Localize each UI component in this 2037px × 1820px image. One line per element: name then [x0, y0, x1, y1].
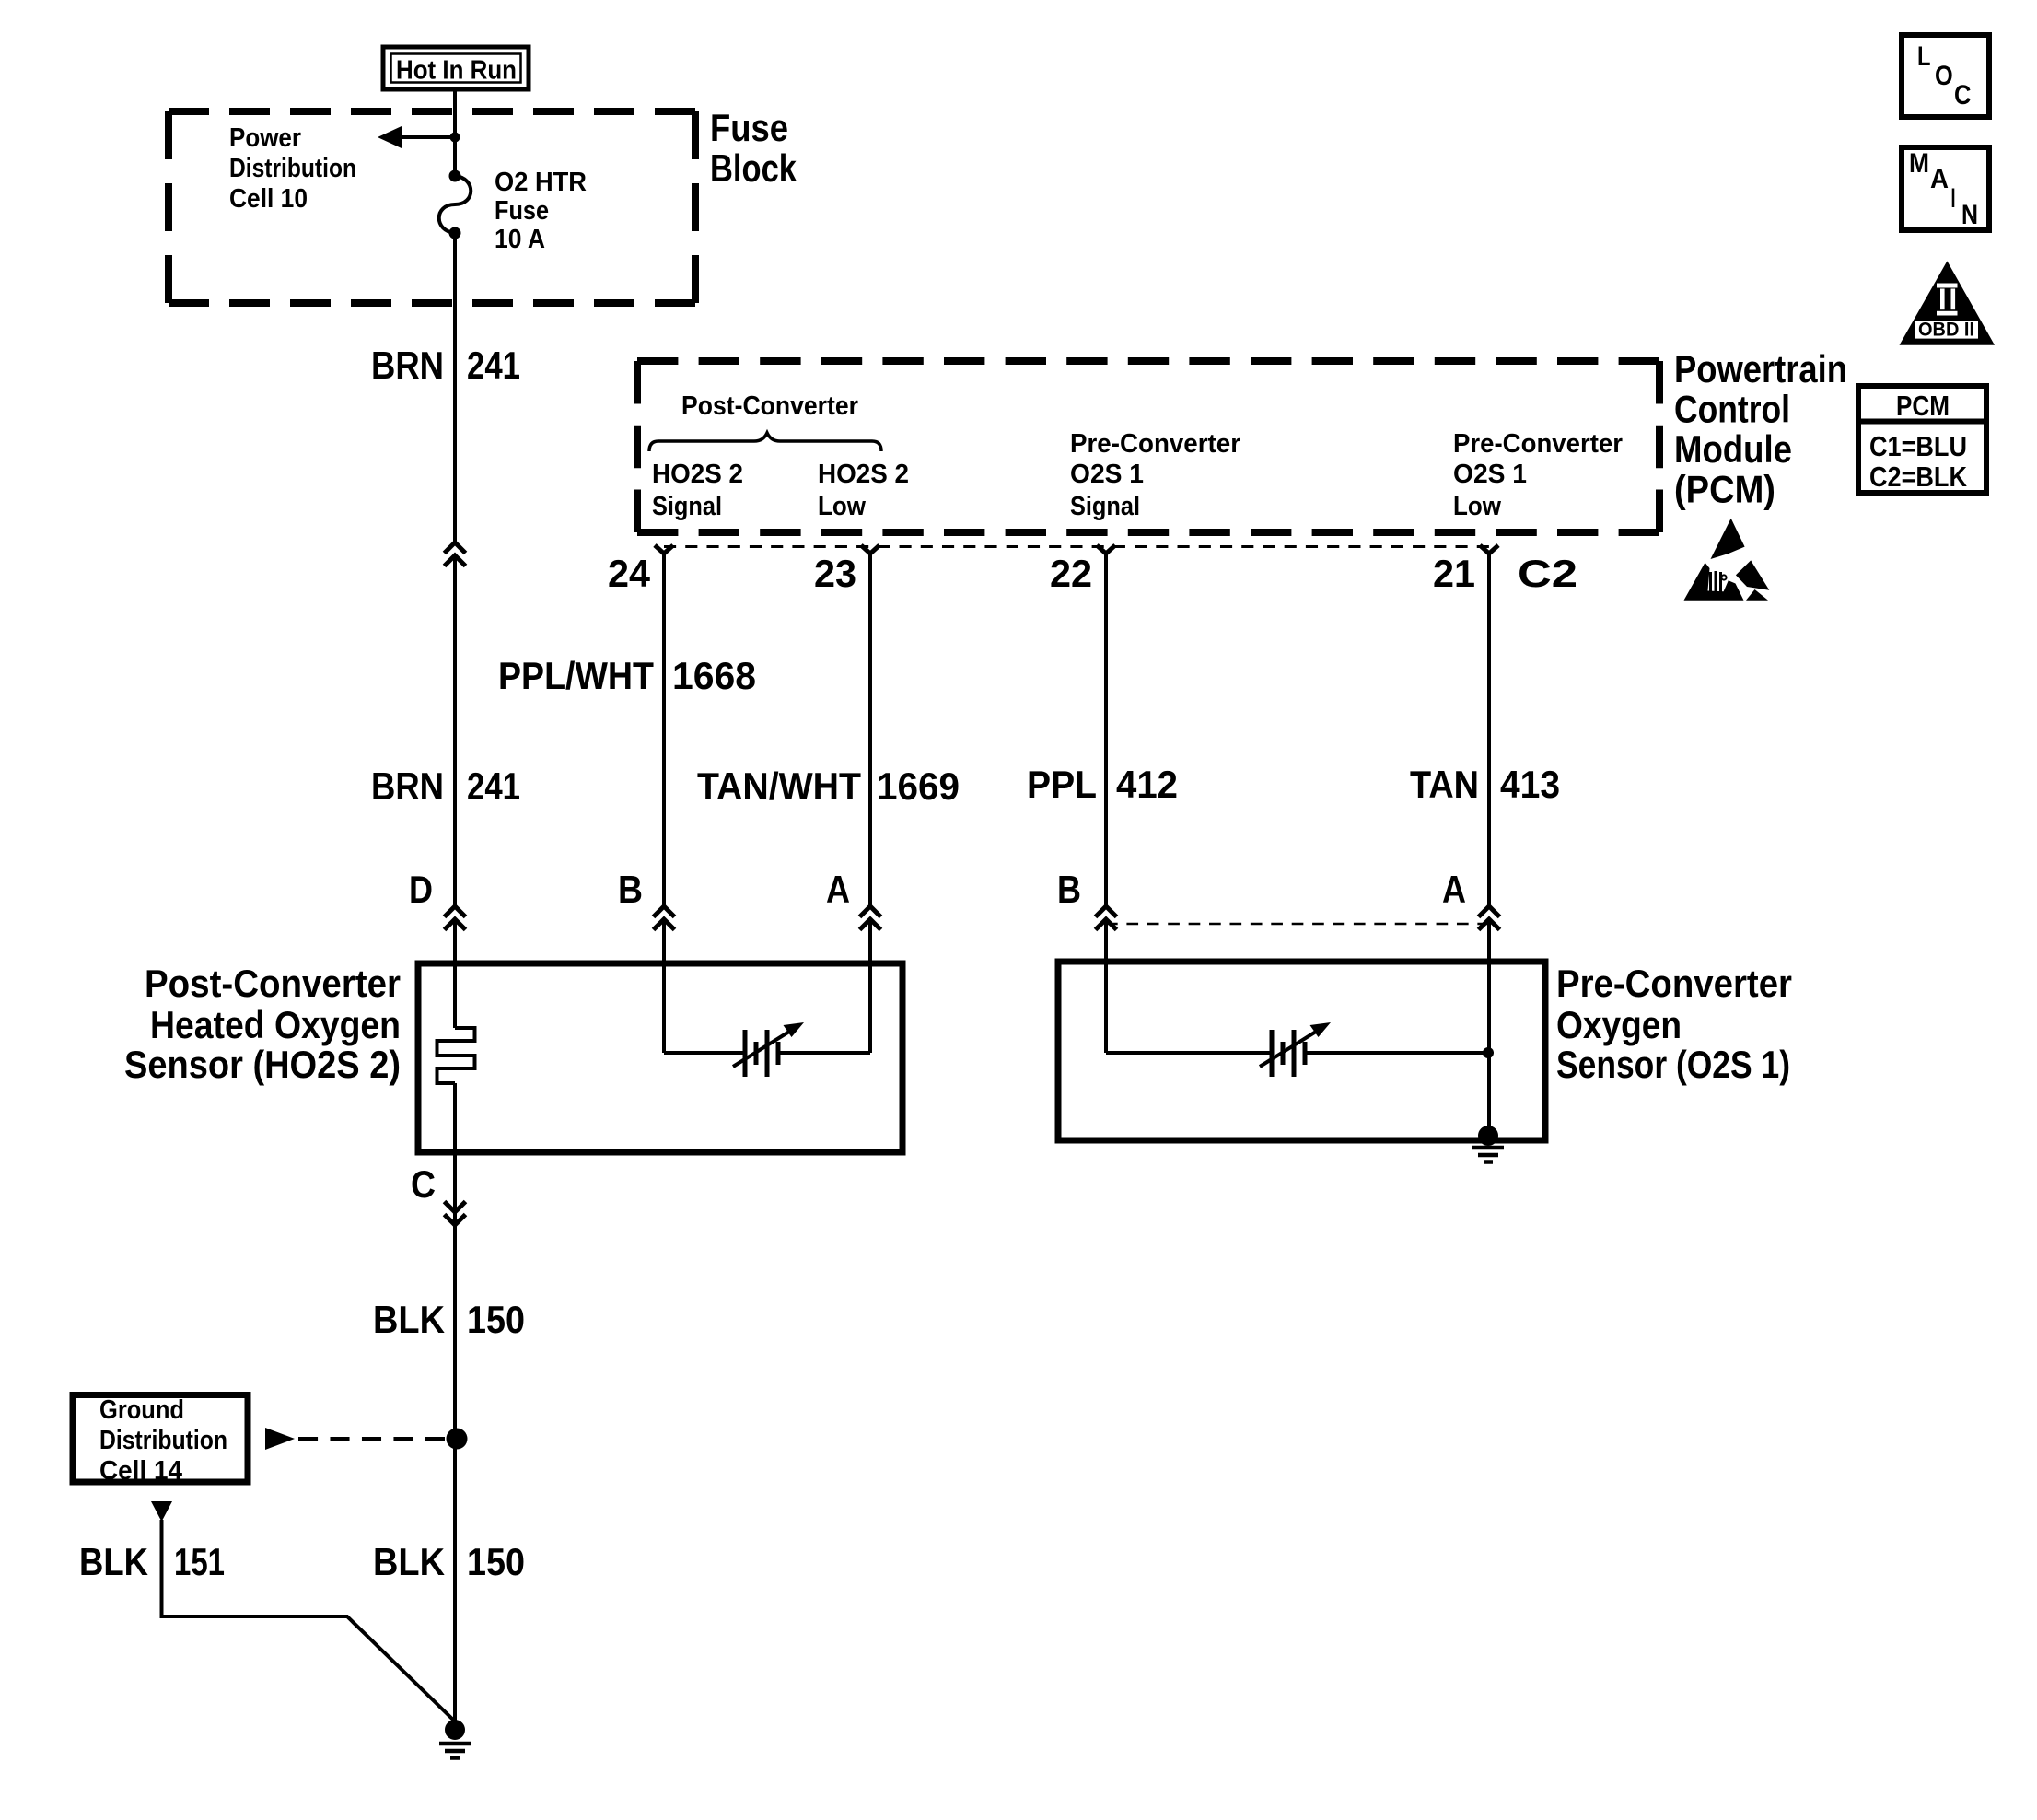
svg-text:Cell 14: Cell 14	[99, 1456, 182, 1486]
label BLK 150 upper	[373, 1298, 525, 1341]
svg-text:PPL: PPL	[1027, 763, 1097, 806]
svg-text:O2 HTR: O2 HTR	[495, 168, 587, 197]
pin socket 24	[655, 545, 673, 554]
svg-text:(PCM): (PCM)	[1674, 468, 1775, 511]
svg-text:22: 22	[1050, 552, 1092, 595]
svg-text:L: L	[1917, 41, 1931, 72]
svg-text:Control: Control	[1674, 388, 1790, 431]
svg-text:BRN: BRN	[371, 764, 444, 808]
svg-text:BLK: BLK	[373, 1540, 445, 1583]
svg-text:TAN: TAN	[1410, 763, 1479, 806]
svg-text:Low: Low	[818, 492, 866, 521]
pin letter C	[411, 1162, 436, 1206]
pin letter B (HO2S 2)	[618, 868, 643, 911]
svg-text:150: 150	[467, 1540, 525, 1583]
wire A2 inside box	[1487, 962, 1491, 1136]
svg-text:O: O	[1935, 61, 1953, 91]
MAIN reference box	[1902, 147, 1989, 230]
svg-text:1669: 1669	[877, 764, 960, 808]
label Post-Converter (brace title)	[681, 391, 858, 421]
connector chevrons wire C	[445, 1202, 466, 1226]
pin label HO2S 2 Signal	[652, 460, 743, 521]
pin label Pre-Converter O2S 1 Low	[1453, 429, 1623, 521]
connector chevrons wire B1	[654, 906, 675, 930]
label Fuse Block	[710, 106, 797, 190]
connector chevrons wire A1	[860, 906, 881, 930]
svg-text:BLK: BLK	[79, 1540, 148, 1583]
svg-text:24: 24	[608, 552, 651, 595]
svg-text:Post-Converter: Post-Converter	[681, 391, 858, 421]
svg-text:10 A: 10 A	[495, 225, 545, 254]
label BRN 241 lower	[371, 764, 520, 808]
svg-text:Distribution: Distribution	[229, 154, 356, 183]
brace over HO2S 2 pins	[649, 433, 881, 451]
pin letter A (HO2S 2)	[826, 868, 850, 911]
svg-text:C1=BLU: C1=BLU	[1869, 430, 1967, 462]
svg-text:241: 241	[467, 764, 520, 808]
label Ground Distribution Cell 14	[99, 1395, 227, 1486]
label BRN 241 upper	[371, 344, 520, 387]
arrow from Ground Distribution	[265, 1428, 445, 1450]
svg-text:1668: 1668	[672, 654, 756, 697]
label C2	[1518, 552, 1577, 595]
svg-text:A: A	[1930, 164, 1949, 194]
post-converter HO2S 2 box	[418, 963, 902, 1152]
label BLK 150 lower	[373, 1540, 525, 1583]
off-page connector triangle BLK 151	[151, 1501, 172, 1522]
powertrain control module dashed box	[637, 361, 1659, 532]
connector chevrons wire B2	[1096, 906, 1117, 930]
O2S 1 connector dashed face line	[1106, 923, 1489, 926]
PCM connector C2 dashed face line	[664, 545, 1489, 548]
PCM connector table	[1858, 386, 1986, 493]
svg-text:Pre-Converter: Pre-Converter	[1453, 429, 1623, 459]
wire TAN/WHT 1669	[868, 553, 872, 963]
connector chevrons wire A2	[1479, 906, 1500, 930]
svg-text:C2: C2	[1518, 552, 1577, 595]
label O2 HTR Fuse 10 A	[495, 168, 587, 254]
svg-text:Distribution: Distribution	[99, 1426, 227, 1455]
fuse O2 HTR 10 A	[439, 170, 471, 239]
svg-text:Pre-Converter: Pre-Converter	[1556, 962, 1792, 1005]
svg-text:151: 151	[174, 1540, 225, 1583]
label PPL 412	[1027, 763, 1178, 806]
ground symbol O2S 1	[1472, 1148, 1504, 1162]
OBD II symbol	[1900, 261, 1996, 344]
svg-text:Oxygen: Oxygen	[1556, 1003, 1682, 1046]
label PPL/WHT 1668	[498, 654, 756, 697]
svg-text:241: 241	[467, 344, 520, 387]
svg-text:A: A	[1442, 868, 1466, 911]
ground distribution box	[73, 1395, 248, 1483]
label Post-Converter Heated Oxygen Sensor (HO2S 2)	[124, 962, 401, 1086]
pin number 21	[1433, 552, 1475, 595]
svg-text:PCM: PCM	[1896, 390, 1950, 422]
wire BLK 150 upper segment	[453, 1083, 457, 1730]
svg-text:Fuse: Fuse	[710, 106, 788, 149]
svg-text:TAN/WHT: TAN/WHT	[697, 764, 861, 808]
junction node O2S 1 signal/ground	[1483, 1047, 1494, 1058]
pin letter D	[409, 868, 433, 911]
svg-text:B: B	[1057, 868, 1081, 911]
svg-text:Sensor (O2S 1): Sensor (O2S 1)	[1556, 1043, 1790, 1086]
wire TAN 413	[1487, 553, 1491, 962]
svg-text:I: I	[1951, 183, 1956, 214]
svg-text:A: A	[826, 868, 850, 911]
svg-text:Powertrain: Powertrain	[1674, 347, 1847, 391]
svg-text:HO2S 2: HO2S 2	[652, 460, 743, 489]
pin socket 22	[1097, 545, 1115, 554]
LOC reference box	[1902, 35, 1989, 117]
svg-text:412: 412	[1116, 763, 1178, 806]
svg-text:150: 150	[467, 1298, 525, 1341]
pin socket 23	[861, 545, 879, 554]
svg-text:Cell 10: Cell 10	[229, 184, 308, 214]
svg-text:Ground: Ground	[99, 1395, 184, 1425]
ground symbol G103	[439, 1744, 471, 1758]
label Powertrain Control Module (PCM)	[1674, 347, 1847, 511]
label BLK 151	[79, 1540, 225, 1583]
wire B1 inside box	[662, 963, 666, 1053]
svg-text:Signal: Signal	[1070, 492, 1140, 521]
svg-text:Hot In Run: Hot In Run	[396, 56, 517, 86]
svg-text:M: M	[1909, 148, 1929, 179]
svg-text:Fuse: Fuse	[495, 196, 549, 226]
ESD sensitivity symbol	[1684, 519, 1770, 601]
svg-text:Heated Oxygen: Heated Oxygen	[150, 1003, 401, 1046]
svg-text:OBD II: OBD II	[1918, 320, 1974, 341]
wire BRN 241 upper segment	[453, 233, 457, 1028]
svg-text:Pre-Converter: Pre-Converter	[1070, 429, 1240, 459]
wire A1 inside box	[868, 963, 872, 1053]
sensing element HO2S 2	[664, 1022, 870, 1077]
svg-text:413: 413	[1500, 763, 1560, 806]
arrow to Power Distribution	[378, 126, 460, 148]
svg-text:21: 21	[1433, 552, 1475, 595]
wire B2 inside box	[1104, 962, 1108, 1053]
svg-text:O2S 1: O2S 1	[1453, 460, 1527, 489]
heater element HO2S 2	[437, 1028, 475, 1083]
svg-text:23: 23	[814, 552, 856, 595]
svg-text:HO2S 2: HO2S 2	[818, 460, 909, 489]
pin number 22	[1050, 552, 1092, 595]
svg-text:Post-Converter: Post-Converter	[145, 962, 401, 1005]
pin label Pre-Converter O2S 1 Signal	[1070, 429, 1240, 521]
svg-text:BRN: BRN	[371, 344, 444, 387]
svg-text:C2=BLK: C2=BLK	[1869, 461, 1968, 493]
svg-text:C: C	[411, 1162, 436, 1206]
svg-text:N: N	[1961, 200, 1978, 230]
svg-text:C: C	[1954, 80, 1972, 111]
pin label HO2S 2 Low	[818, 460, 909, 521]
label Pre-Converter Oxygen Sensor (O2S 1)	[1556, 962, 1792, 1086]
svg-text:Sensor (HO2S 2): Sensor (HO2S 2)	[124, 1043, 401, 1086]
ground node G103	[445, 1720, 465, 1740]
svg-text:Low: Low	[1453, 492, 1501, 521]
junction dot O2S 1 ground	[1478, 1126, 1498, 1146]
svg-text:B: B	[618, 868, 643, 911]
pin number 23	[814, 552, 856, 595]
svg-text:Power: Power	[229, 123, 301, 153]
wire PPL/WHT 1668	[662, 553, 666, 963]
fuse block dashed box	[169, 111, 695, 303]
sensing element O2S 1	[1106, 1022, 1488, 1077]
svg-text:BLK: BLK	[373, 1298, 445, 1341]
wire BLK 151	[162, 1520, 455, 1721]
svg-text:Module: Module	[1674, 427, 1792, 471]
hot in run feed box	[383, 47, 529, 89]
label TAN 413	[1410, 763, 1560, 806]
wire PPL 412	[1104, 553, 1108, 962]
svg-text:PPL/WHT: PPL/WHT	[498, 654, 654, 697]
svg-text:Signal: Signal	[652, 492, 722, 521]
svg-text:O2S 1: O2S 1	[1070, 460, 1144, 489]
inline connector on BRN wire	[445, 542, 466, 566]
svg-text:D: D	[409, 868, 433, 911]
svg-text:Block: Block	[710, 146, 797, 190]
pin socket 21	[1480, 545, 1498, 554]
connector chevrons wire D	[445, 906, 466, 930]
pin number 24	[608, 552, 651, 595]
label Power Distribution Cell 10	[229, 123, 356, 214]
pre-converter O2S 1 box	[1058, 962, 1545, 1140]
junction node G (BLK 150 splice)	[447, 1429, 468, 1450]
wire from Hot In Run to fuse	[453, 89, 457, 176]
label TAN/WHT 1669	[697, 764, 960, 808]
pin letter A (O2S 1)	[1442, 868, 1466, 911]
pin letter B (O2S 1)	[1057, 868, 1081, 911]
